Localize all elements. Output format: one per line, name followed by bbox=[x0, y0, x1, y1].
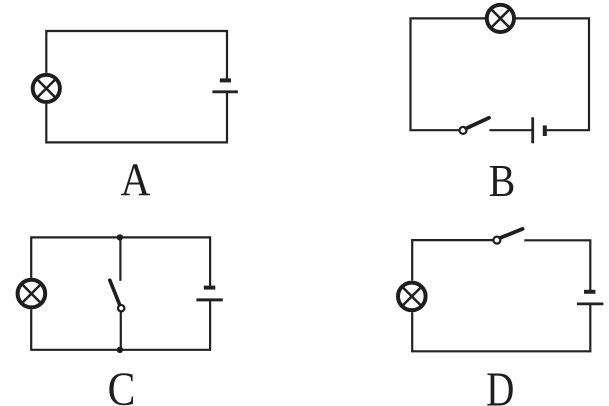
wire C: battery down, bottom edge, left-up to lamp bbox=[31, 300, 210, 350]
wire C: middle branch upper segment bbox=[119, 237, 121, 280]
wire D: left-up, top edge to switch pivot bbox=[412, 240, 493, 280]
label C bbox=[108, 363, 136, 406]
label B bbox=[489, 157, 516, 207]
lamp D bbox=[398, 283, 426, 311]
svg-text:D: D bbox=[486, 364, 514, 406]
label D bbox=[486, 364, 514, 406]
battery B: long (positive) plate bbox=[531, 117, 534, 143]
switch C (open): lever and pivot circle bbox=[110, 280, 125, 311]
wire A: left-up, top edge, right-down to battery bbox=[46, 31, 227, 80]
switch B (open): pivot circle and lever bbox=[460, 118, 490, 134]
wire C: left-up, top edge, right-down to battery bbox=[31, 237, 210, 287]
lamp C bbox=[18, 280, 46, 308]
label A bbox=[120, 155, 150, 206]
junction C bottom bbox=[117, 347, 123, 353]
lamp B bbox=[487, 5, 514, 32]
battery C: long (positive) plate bbox=[196, 298, 222, 301]
svg-text:A: A bbox=[120, 155, 150, 206]
switch D (open): pivot circle and lever bbox=[493, 229, 522, 244]
lamp A bbox=[33, 75, 60, 102]
svg-text:C: C bbox=[108, 363, 136, 406]
battery D: long (positive) plate bbox=[577, 302, 604, 305]
wire B: switch contact to battery bbox=[489, 129, 531, 131]
battery C: short (negative) plate bbox=[204, 286, 216, 290]
junction C top bbox=[117, 234, 123, 240]
wire D: battery down, bottom edge, left-up to lamp bbox=[412, 304, 590, 351]
svg-text:B: B bbox=[489, 157, 516, 207]
battery A: long (positive) plate bbox=[212, 90, 238, 93]
battery B: short (negative) plate bbox=[543, 125, 547, 136]
wire C: middle branch lower segment bbox=[120, 312, 122, 350]
wire B: top-left segment, left edge, bottom to switch pivot bbox=[411, 18, 486, 130]
wire B: top-right segment and right edge down bbox=[516, 18, 589, 130]
wire A: battery down, bottom edge, left-up to lamp bbox=[46, 92, 227, 142]
battery D: short (negative) plate bbox=[584, 290, 595, 294]
battery A: short (negative) plate bbox=[220, 78, 231, 82]
wire D: switch contact along top, right edge down to battery bbox=[524, 240, 590, 291]
